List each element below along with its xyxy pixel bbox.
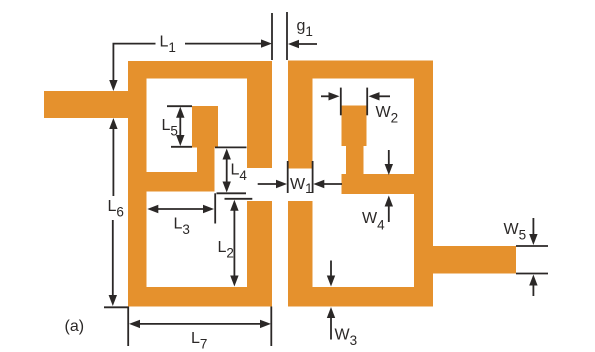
dimension W2 left tick (340, 88, 342, 116)
dimension L7 right tick (270, 307, 272, 347)
left ring bottom bar (128, 287, 272, 307)
arrowhead g1 left at right ring edge (288, 40, 299, 48)
left inner neck (197, 145, 215, 175)
right ring left bar lower segment (288, 201, 313, 307)
right inner arm (342, 174, 415, 194)
dimension W1 left arrow line (258, 183, 281, 185)
dimension L6 bottom tick (104, 306, 128, 308)
dimension g1 arrow line (295, 43, 317, 45)
dimension L5 bottom tick (171, 146, 192, 148)
arrowhead L7 left (129, 320, 140, 328)
left ring right bar upper segment (247, 61, 272, 168)
arrowhead W3 up (327, 307, 335, 318)
arrowhead W2 left-pointing (369, 92, 380, 100)
dimension W3 top arrow line (330, 261, 332, 281)
right ring left bar upper segment (288, 61, 313, 169)
arrowhead L5 up (176, 107, 184, 118)
arrowhead L1 down at feed top (109, 80, 117, 91)
arrowhead L3 left (147, 205, 158, 213)
arrowhead L6 up at feed bottom (109, 118, 117, 129)
dimension L2 line (233, 207, 235, 281)
dimension g1 left tick (271, 13, 273, 60)
dimension W2 left arrow line (321, 95, 333, 97)
dimension L4 bottom tick (217, 192, 247, 194)
arrowhead W2 right-pointing (329, 92, 340, 100)
dimension W5 top tick (516, 245, 548, 247)
arrowhead W3 down (327, 276, 335, 287)
dimension W1 right tick (312, 161, 314, 193)
dimension W1 right arrow line (320, 183, 343, 185)
left ring left bar (128, 61, 147, 307)
left ring right bar lower segment (247, 201, 272, 307)
right ring top bar (288, 61, 433, 79)
dimension L3 right tick (214, 193, 216, 223)
right ring right bar (414, 61, 433, 307)
dimension L7 line (136, 323, 265, 325)
arrowhead L3 right (203, 205, 214, 213)
dimension L4 top tick (215, 146, 247, 148)
arrowhead L2 up (230, 200, 238, 211)
dimension L1 polyline (113, 44, 155, 84)
arrowhead W4 down (385, 164, 393, 175)
arrowhead L4 up (223, 149, 231, 160)
right ring bottom bar (288, 287, 433, 307)
dimension L5 line (179, 113, 181, 140)
dimension g1 right tick (286, 12, 288, 60)
arrowhead W1 right-pointing (276, 180, 287, 188)
left inner pad stub (192, 106, 218, 148)
dimension W2 right tick (366, 88, 368, 116)
dimension L6 line upper (112, 125, 114, 196)
arrowhead L7 right (260, 320, 271, 328)
arrowhead W5 up (529, 275, 537, 286)
right inner neck (346, 145, 364, 176)
dimension L7 left tick (127, 307, 129, 347)
dimension W4 bottom arrow line (388, 203, 390, 223)
arrowhead L4 down (223, 182, 231, 193)
dimension L6 line lower (112, 220, 114, 299)
arrowhead W4 up (385, 196, 393, 207)
dimension L4 line (226, 155, 228, 186)
arrowhead L6 down at ring bottom (109, 295, 117, 306)
left feed line (44, 91, 146, 118)
dimension L3 line (154, 208, 208, 210)
dimension W5 bottom tick (516, 273, 548, 275)
left ring top bar (128, 61, 272, 79)
dimension W4 top arrow line (388, 150, 390, 168)
right inner pad stub (342, 106, 367, 147)
arrowhead L5 down (176, 135, 184, 146)
left inner arm (146, 172, 215, 192)
arrowhead W1 left-pointing (313, 180, 324, 188)
dimension W1 left tick (287, 161, 289, 193)
arrowhead W5 down (529, 234, 537, 245)
dimension L5 top tick (167, 105, 192, 107)
dimension W2 right arrow line (375, 95, 390, 97)
dimension L2 top tick (225, 198, 253, 200)
dimension W3 bottom arrow line (330, 314, 332, 340)
dimension W5 bottom arrow line (532, 281, 534, 297)
dimension W5 top arrow line (532, 218, 534, 239)
svg-text:(a): (a) (65, 318, 85, 335)
arrowhead L2 down (230, 276, 238, 287)
right feed line (433, 246, 516, 274)
arrowhead L1 right at ring edge (261, 39, 272, 47)
